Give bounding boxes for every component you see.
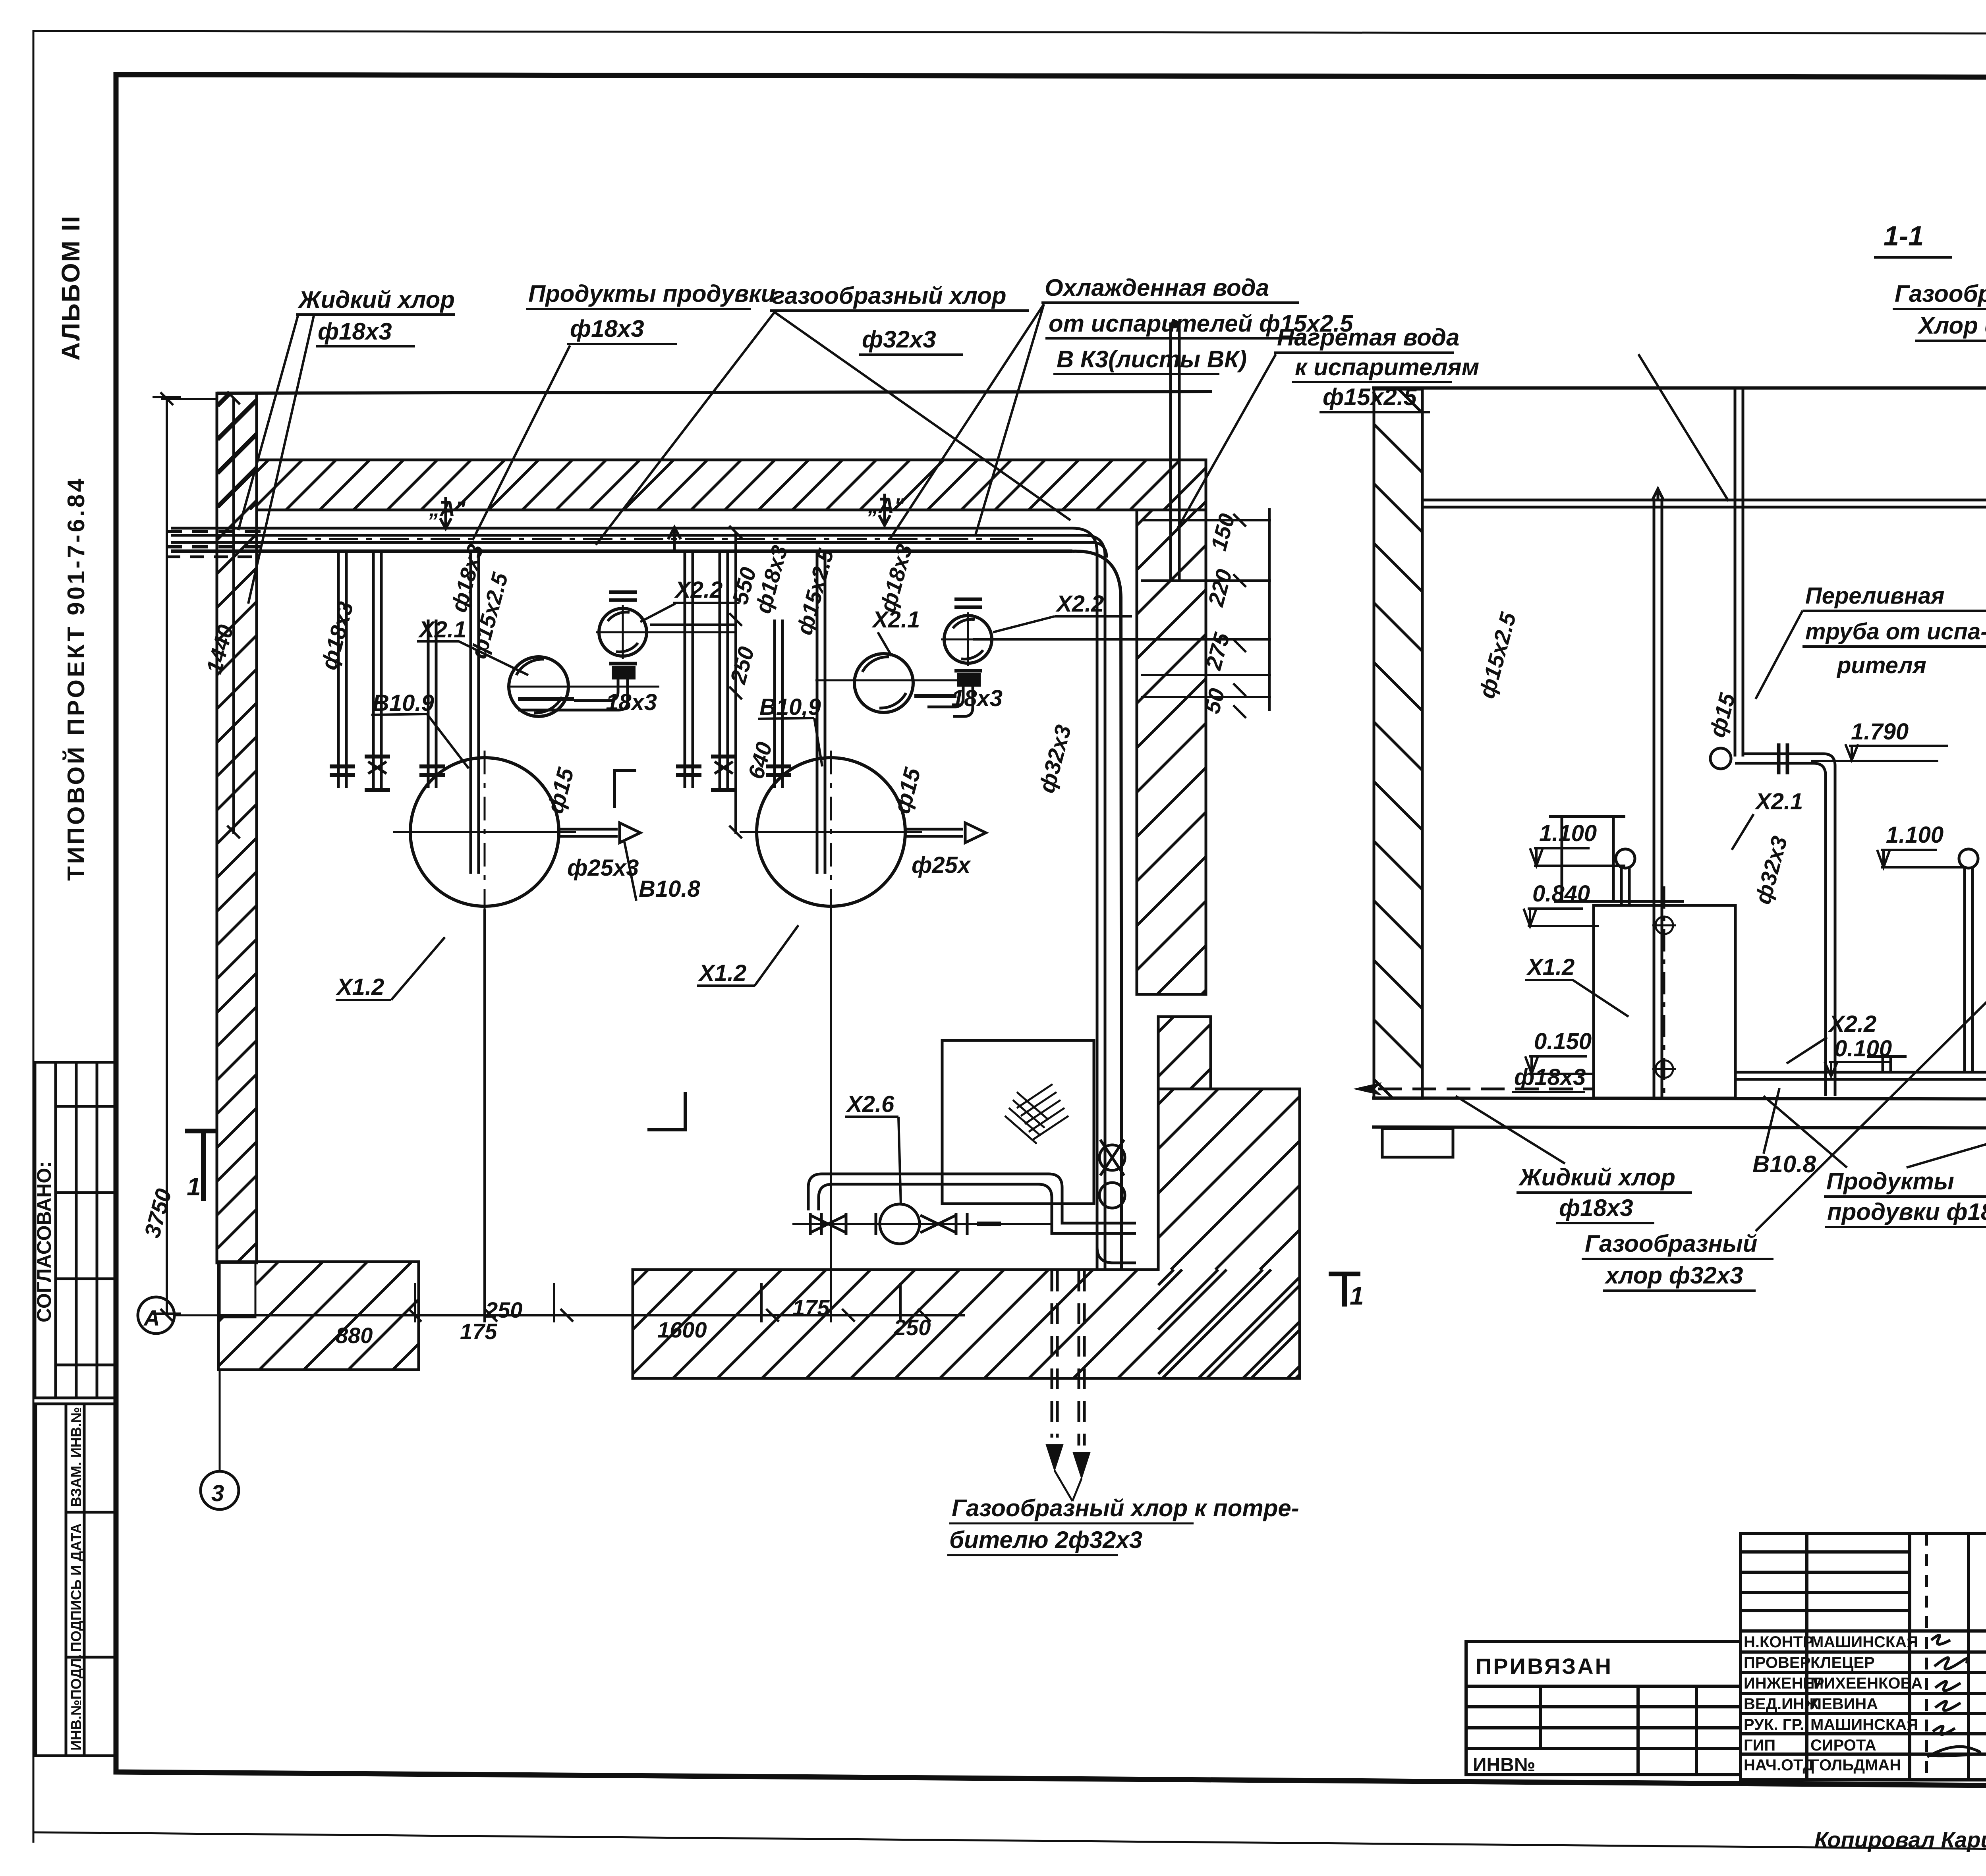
wall: plan top wall hatched band <box>257 460 1206 510</box>
svg-text:175: 175 <box>792 1295 830 1320</box>
svg-text:газообразный хлор: газообразный хлор <box>772 282 1007 309</box>
svg-text:Х2.1: Х2.1 <box>1754 789 1803 814</box>
wall: plan right wall upper <box>1137 510 1206 994</box>
svg-text:ф25х: ф25х <box>912 852 972 878</box>
svg-text:250: 250 <box>485 1297 522 1322</box>
node up-arrow on bundle mid <box>668 527 681 553</box>
pipe main horizontal bundle <box>171 527 1072 530</box>
dim: vertical 1440 line <box>232 398 235 834</box>
svg-text:А: А <box>143 1305 160 1330</box>
svg-text:ф18х3: ф18х3 <box>318 318 392 345</box>
svg-text:ИНВ.№ПОДЛ.: ИНВ.№ПОДЛ. <box>68 1654 84 1751</box>
tank X1.2 section <box>1594 905 1735 1098</box>
svg-text:250: 250 <box>893 1315 931 1340</box>
svg-text:ГОЛЬДМАН: ГОЛЬДМАН <box>1810 1756 1901 1774</box>
svg-text:ПРОВЕР: ПРОВЕР <box>1744 1654 1810 1671</box>
svg-text:1.790: 1.790 <box>1851 719 1909 745</box>
svg-text:рителя: рителя <box>1836 652 1926 678</box>
svg-text:ЛЕВИНА: ЛЕВИНА <box>1810 1695 1878 1713</box>
svg-text:ф18х3: ф18х3 <box>1559 1195 1633 1221</box>
svg-text:Х2.2: Х2.2 <box>674 577 723 603</box>
leader X2.2/0.100 mid <box>1787 1037 1827 1063</box>
svg-text:ИНВ№: ИНВ№ <box>1473 1754 1535 1776</box>
pipe bundle corner to vertical riser <box>1072 528 1097 1270</box>
pipe X2.2 to X2.1 connection <box>574 679 618 701</box>
node privyazan table <box>1466 1641 1741 1775</box>
wall: section ceiling <box>1372 386 1986 390</box>
svg-text:„А": „А" <box>429 497 466 521</box>
node corner mark lower <box>647 1092 685 1130</box>
evaporator X2.1 no.2 <box>854 654 913 712</box>
wall: left foundation block <box>1382 1129 1453 1157</box>
svg-text:Х1.2: Х1.2 <box>1526 954 1575 980</box>
svg-text:Хлор ф32х3: Хлор ф32х3 <box>1917 312 1986 339</box>
leaders left elevation marks <box>1530 848 1625 866</box>
wire: leader heated water <box>1638 354 1729 501</box>
ejector X2.2 no.2 <box>944 616 992 663</box>
svg-text:0.100: 0.100 <box>1834 1036 1892 1062</box>
svg-text:Х2.6: Х2.6 <box>846 1091 894 1117</box>
pipe tank1 outlet <box>559 828 618 831</box>
svg-text:ф32х3: ф32х3 <box>862 326 936 353</box>
wall: section left wall <box>1374 389 1422 1098</box>
svg-text:В10,9: В10,9 <box>759 694 821 720</box>
PLAN TOP LABELS <box>298 274 1479 410</box>
svg-text:ф18х3: ф18х3 <box>1514 1064 1586 1090</box>
svg-text:18х3: 18х3 <box>951 685 1003 711</box>
svg-text:В К3(листы ВК): В К3(листы ВК) <box>1057 346 1247 372</box>
panel rectangle <box>942 1040 1094 1204</box>
dim: right side extension lines <box>1141 519 1271 521</box>
svg-text:труба от испа-: труба от испа- <box>1805 619 1986 645</box>
svg-text:СИРОТА: СИРОТА <box>1810 1737 1876 1754</box>
leader X2.1 mid <box>1732 814 1754 850</box>
svg-text:ф18х3: ф18х3 <box>570 315 644 342</box>
pipe vertical phi15 from ceiling <box>1734 389 1737 757</box>
SECTION BOTTOM LABELS <box>1518 1151 1986 1289</box>
svg-text:Н.КОНТР: Н.КОНТР <box>1744 1633 1814 1651</box>
pipe horizontal at level 2.850 <box>1422 499 1986 502</box>
hatch lines <box>257 460 1206 510</box>
svg-text:к испарителям: к испарителям <box>1295 354 1479 380</box>
pipes to consumer below wall <box>1052 1271 1084 1446</box>
svg-text:МИХЕЕНКОВА: МИХЕЕНКОВА <box>1810 1675 1922 1692</box>
svg-text:0.840: 0.840 <box>1532 881 1590 907</box>
SECTION INNER LABELS <box>1514 583 1986 1090</box>
TITLE BLOCK <box>1466 1534 1986 1780</box>
svg-text:Переливная: Переливная <box>1805 583 1944 609</box>
pipe floor run left dashed <box>1378 1088 1594 1090</box>
svg-text:Х2.1: Х2.1 <box>418 617 466 643</box>
evaporator X2.1 no.1 <box>509 657 568 716</box>
svg-text:ВЗАМ. ИНВ.№: ВЗАМ. ИНВ.№ <box>68 1407 84 1507</box>
node signatures scribbles <box>1927 1635 1980 1757</box>
wall: plan right wall jog <box>1158 1017 1211 1089</box>
dim: vertical 3750 line <box>166 397 168 1315</box>
pipe vertical phi15x2.5 left <box>1653 501 1656 1098</box>
svg-text:МАШИНСКАЯ: МАШИНСКАЯ <box>1810 1716 1918 1733</box>
wall: plan top-left niche hatch <box>218 394 257 510</box>
svg-text:ТИПОВОЙ ПРОЕКТ 901-7-6.84: ТИПОВОЙ ПРОЕКТ 901-7-6.84 <box>63 476 89 881</box>
svg-text:Х2.2: Х2.2 <box>1828 1011 1876 1037</box>
dim: vertical chain 550/250/640 <box>734 532 737 834</box>
valve flanges group 1 <box>330 757 445 790</box>
svg-text:Газообразный хлор к потре-: Газообразный хлор к потре- <box>952 1495 1299 1521</box>
svg-text:1.100: 1.100 <box>1539 820 1597 846</box>
wire: thin outer border left <box>33 30 35 1843</box>
svg-text:3: 3 <box>211 1480 224 1506</box>
svg-text:ПОДПИСЬ И ДАТА: ПОДПИСЬ И ДАТА <box>68 1523 84 1652</box>
SECTION LABELS TOP <box>1895 280 1986 339</box>
pipe riser group 2 <box>684 553 686 788</box>
pipe tank2 outlet <box>905 828 963 831</box>
svg-text:175: 175 <box>460 1319 497 1344</box>
svg-text:„А": „А" <box>867 494 905 518</box>
tank X1.2 no.1 <box>410 758 559 906</box>
pipe tank feed with circle 1.100 left <box>1620 868 1623 905</box>
svg-text:Нагретая вода: Нагретая вода <box>1277 324 1459 351</box>
wall: section floor <box>1372 1098 1986 1100</box>
svg-text:Жидкий хлор: Жидкий хлор <box>1518 1164 1675 1191</box>
pipe bundle dashed line <box>166 530 262 533</box>
svg-text:1-1: 1-1 <box>1884 220 1924 251</box>
svg-text:Продукты: Продукты <box>1826 1168 1954 1195</box>
PLAN PIPES <box>166 320 1179 1501</box>
wire: leaders bottom section <box>1456 1096 1565 1164</box>
leaders right 1.100 <box>1877 850 1967 867</box>
node axis circle 3 <box>201 1471 239 1509</box>
node main stamp table <box>1741 1534 1986 1780</box>
svg-text:1: 1 <box>1350 1282 1364 1310</box>
pipe riser group 1 <box>337 553 340 788</box>
node axis circle A <box>138 1297 174 1334</box>
svg-text:1600: 1600 <box>657 1317 707 1342</box>
wire: label underlines <box>296 313 455 316</box>
wall: plan bottom-left block <box>218 1262 419 1370</box>
wire: underlines and leaders in section <box>1802 610 1986 612</box>
svg-text:ПРИВЯЗАН: ПРИВЯЗАН <box>1476 1654 1613 1679</box>
svg-text:В10.8: В10.8 <box>639 876 701 902</box>
svg-text:1: 1 <box>187 1172 201 1201</box>
svg-text:Жидкий хлор: Жидкий хлор <box>298 286 455 313</box>
node section mark 1 right <box>1329 1274 1360 1307</box>
tank X1.2 no.2 <box>757 758 905 906</box>
svg-text:продувки ф18х3: продувки ф18х3 <box>1827 1199 1986 1225</box>
manifold horizontal with valves <box>792 1223 1053 1225</box>
svg-text:Охлажденная вода: Охлажденная вода <box>1045 274 1269 301</box>
svg-text:хлор ф32х3: хлор ф32х3 <box>1604 1262 1743 1289</box>
pipe lower manifold loop <box>808 1174 1062 1210</box>
svg-text:Х1.2: Х1.2 <box>336 974 384 1000</box>
node inv table <box>36 1404 117 1756</box>
svg-text:18х3: 18х3 <box>606 689 657 715</box>
node section mark 1 left <box>185 1131 218 1201</box>
SECTION PIPES <box>1354 389 1986 1446</box>
svg-text:В10.9: В10.9 <box>373 690 434 716</box>
svg-text:ГИП: ГИП <box>1744 1737 1775 1754</box>
PLAN DIMENSIONS <box>153 392 1271 1322</box>
svg-text:Газообразный: Газообразный <box>1585 1230 1757 1257</box>
svg-text:ВЕД.ИНЖ: ВЕД.ИНЖ <box>1744 1695 1819 1713</box>
svg-text:Продукты продувки: Продукты продувки <box>528 280 775 307</box>
svg-text:Х1.2: Х1.2 <box>698 960 746 986</box>
wall: plan top wall outer line <box>217 392 1212 393</box>
wire: thin outer border bottom <box>33 1832 1986 1854</box>
svg-text:РУК. ГР.: РУК. ГР. <box>1744 1716 1804 1733</box>
node soglasovano table <box>35 1062 116 1398</box>
pipe floor run middle <box>1735 1071 1986 1074</box>
svg-text:Копировал Каршунова: Копировал Каршунова <box>1814 1827 1986 1852</box>
pipe hot water riser through top wall <box>1169 322 1172 580</box>
svg-text:СОГЛАСОВАНО:: СОГЛАСОВАНО: <box>33 1161 55 1322</box>
svg-text:МАШИНСКАЯ: МАШИНСКАЯ <box>1810 1633 1918 1651</box>
svg-text:Газообразный: Газообразный <box>1895 280 1986 307</box>
pipe vertical right of tank 1.100 <box>1963 868 1966 1072</box>
svg-text:Х2.2: Х2.2 <box>1055 591 1104 617</box>
svg-text:В10.8: В10.8 <box>1752 1151 1816 1177</box>
manifold right risers to wall <box>1097 1247 1136 1263</box>
svg-text:1.100: 1.100 <box>1886 822 1943 848</box>
wire: thin outer border top <box>33 31 1986 34</box>
PLAN COMPONENT LABELS <box>336 577 1104 1117</box>
svg-text:0.150: 0.150 <box>1534 1029 1592 1054</box>
svg-text:АЛЬБОМ II: АЛЬБОМ II <box>56 215 85 361</box>
svg-text:НАЧ.ОТД: НАЧ.ОТД <box>1744 1756 1814 1774</box>
svg-text:880: 880 <box>336 1323 373 1348</box>
dim: horizontal chain at bottom <box>218 1314 965 1316</box>
wire: leader lines from labels to pipes <box>238 316 298 530</box>
pipe overflow elbow 1.790 <box>1743 754 1835 1096</box>
svg-text:КЛЕЦЕР: КЛЕЦЕР <box>1810 1654 1875 1671</box>
wall: plan bottom-right block <box>633 1089 1300 1378</box>
ejector X2.2 no.1 <box>599 608 647 656</box>
wall: plan left wall <box>217 393 257 1263</box>
node corner mark near tank1 <box>614 770 636 808</box>
shelf above tank <box>1554 900 1684 903</box>
svg-text:бителю 2ф32х3: бителю 2ф32х3 <box>949 1527 1142 1553</box>
panel crosshatch patch <box>1005 1084 1068 1144</box>
